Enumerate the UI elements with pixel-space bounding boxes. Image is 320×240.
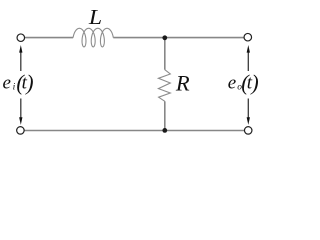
svg-text:R: R <box>175 70 190 95</box>
svg-text:): ) <box>24 70 33 95</box>
svg-text:e: e <box>228 73 236 94</box>
svg-text:i: i <box>13 83 16 93</box>
svg-text:): ) <box>249 70 258 95</box>
svg-text:e: e <box>3 73 11 94</box>
svg-text:L: L <box>88 5 102 29</box>
